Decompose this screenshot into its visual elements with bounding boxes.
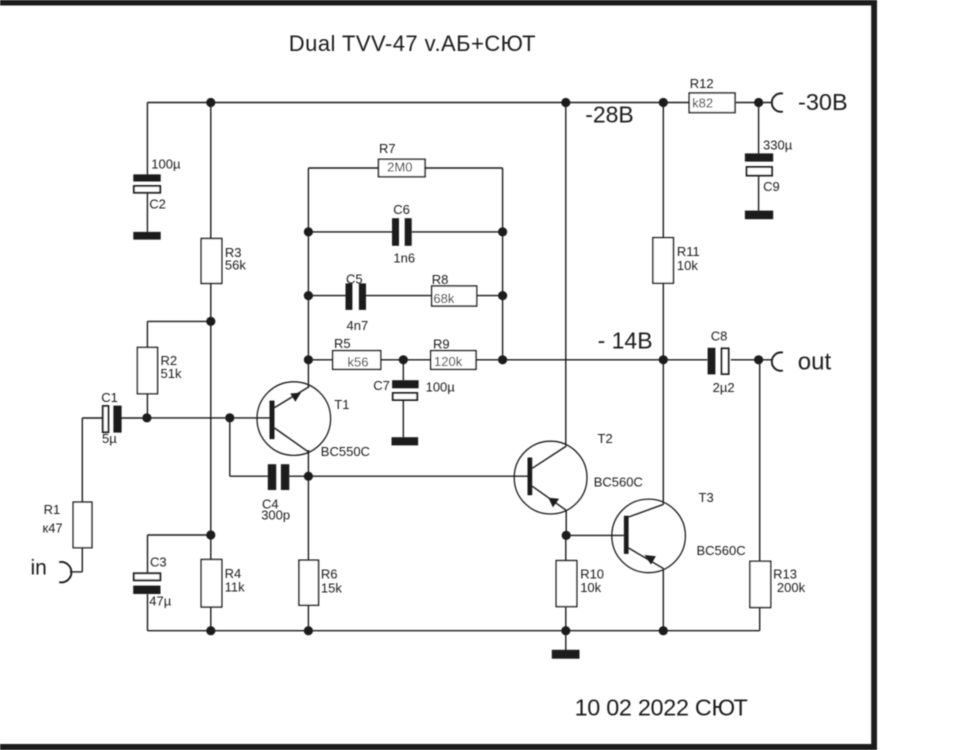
wire R6 to bottom rail [307,605,309,631]
capacitor C6 plate1 [392,218,399,246]
svg-text:C6: C6 [393,202,410,217]
wire T1 node to R6 [307,476,309,561]
svg-text:300p: 300p [261,508,290,523]
node out row/T3 emitter [659,355,668,364]
transistor T1 circle [257,382,331,456]
resistor R7 box [379,159,426,176]
wire T3 collector down [662,569,664,631]
resistor R1 box [73,502,92,548]
node R5/C7 junction [399,355,408,364]
wire fb top left [308,167,378,169]
wire R2 bottom stub [146,394,148,418]
svg-text:k56: k56 [348,354,369,369]
page right border bar [871,0,877,750]
wire T2 collector down [565,511,567,536]
svg-text:2M0: 2M0 [387,160,412,175]
svg-text:R1: R1 [44,502,61,517]
transistor T2 base bar [528,458,533,496]
wire out row [503,359,708,361]
svg-text:11k: 11k [225,579,245,594]
capacitor C8 plate+ [708,348,716,375]
wire C1 down to R1 [81,418,83,502]
node fb/C6 row left [304,227,313,236]
node R3/R2 junction [206,317,215,326]
svg-text:R9: R9 [433,336,450,351]
wire fb top right [425,167,503,169]
node base/R2/C1 junction [142,413,151,422]
wire T1 collector to T2 base [308,475,527,477]
svg-text:-30В: -30В [798,89,848,115]
svg-text:k82: k82 [692,96,713,111]
wire R13 to bottom rail [759,608,761,631]
capacitor C3 plate- [134,573,161,580]
connector out arc [772,352,783,370]
page bottom border bar [0,744,877,750]
node fb/C5 row left [304,291,313,300]
wire T3 emitter up [662,360,664,504]
node rail/C9 [754,98,763,107]
terminal bar C2 [133,232,160,240]
svg-text:56k: 56k [225,258,246,273]
transistor T2 circle [514,441,587,514]
capacitor C8 plate- [722,348,729,374]
wire C6 right [412,231,503,233]
svg-text:330µ: 330µ [763,138,793,153]
wire C2 bottom [146,193,148,232]
wire out to R13 [759,360,761,562]
svg-text:- 14В: - 14В [598,328,653,354]
svg-text:5µ: 5µ [102,431,117,446]
svg-text:BC550C: BC550C [321,444,370,459]
wire top rail [147,102,689,104]
svg-text:68k: 68k [433,291,454,306]
svg-text:C9: C9 [763,179,780,194]
wire in stub [70,571,82,573]
node fb/C5 row right [498,291,507,300]
capacitor C2 plate+ [133,174,160,181]
transistor T3 collector line [629,548,664,569]
svg-text:R8: R8 [432,272,449,287]
transistor T3 collector arrow [644,555,656,565]
node bottom rail/T3 [659,626,668,635]
wire R10 top stub [565,535,567,561]
svg-text:C1: C1 [101,390,118,405]
svg-text:51k: 51k [161,366,182,381]
node rail/R3 [206,98,215,107]
wire C1 left [82,417,103,419]
resistor R2 box [137,347,157,393]
resistor R10 box [556,561,577,607]
transistor T1 emitter arrow [290,393,301,402]
node divider/C3 junction [206,530,215,539]
wire R8 right [477,295,503,297]
node base/C4 junction [225,413,234,422]
resistor R8 box [432,286,477,306]
wire R1 to in [81,548,83,572]
wire feedback column upper [307,168,309,360]
resistor R4 box [201,560,222,608]
capacitor C1 plate+ [113,406,121,433]
svg-text:10k: 10k [677,258,698,273]
wire ground stub [565,631,567,651]
wire T2 to T3 base [566,534,624,536]
resistor R6 box [299,560,319,605]
wire R11 bottom [662,283,664,360]
svg-text:1n6: 1n6 [393,250,415,265]
wire C4 right stub [289,475,308,477]
wire R10 to bottom rail [565,607,567,630]
svg-text:200k: 200k [777,580,806,595]
wire C5 left [308,295,345,297]
svg-text:out: out [798,349,832,376]
wire C2 top [146,103,148,175]
svg-text:R6: R6 [321,567,338,582]
node out/R13 [754,355,763,364]
wire R3 to R4 [210,283,212,559]
capacitor C6 plate2 [405,218,412,246]
transistor T3 emitter line [629,504,664,517]
node bottom rail/R4 [206,626,215,635]
capacitor C1 plate- [103,406,109,432]
node T2 collector/R10/T3 base [562,531,571,540]
capacitor C7 plate- [393,393,417,400]
svg-text:C7: C7 [373,378,390,393]
svg-text:R12: R12 [690,76,714,91]
capacitor C7 plate+ [392,380,419,388]
resistor R13 box [750,561,771,607]
svg-text:T2: T2 [598,431,613,446]
wire T1 collector down [307,450,309,476]
wire C4 branch down [229,418,231,476]
node bottom rail/ground [561,626,570,635]
node bottom rail/R6 [304,626,313,635]
wire R9 right [476,359,503,361]
wire C3 to bottom rail [147,594,149,631]
wire T1 emitter to R5 row [307,360,309,387]
capacitor C9 plate+ [745,153,773,161]
wire C6 left [308,231,392,233]
node rail/R11 [659,98,668,107]
wire R5 to R9 [381,359,431,361]
svg-text:15k: 15k [321,580,342,595]
svg-text:10k: 10k [580,580,601,595]
resistor R3 box [201,239,222,284]
capacitor C4 plate2 [281,464,289,490]
svg-text:BC560C: BC560C [697,543,746,558]
svg-text:R5: R5 [334,336,351,351]
svg-text:C5: C5 [346,272,363,287]
connector -30В arc [772,93,783,111]
capacitor C2 plate- [134,186,160,193]
transistor T1 collector line [275,428,309,452]
transistor T2 collector line [532,486,566,510]
wire C9 top [758,103,760,154]
svg-text:Dual TVV-47 v.АБ+СЮТ: Dual TVV-47 v.АБ+СЮТ [289,31,536,56]
svg-text:T1: T1 [334,397,349,412]
resistor R5 box [333,351,381,370]
node fb/R9 row right [498,355,507,364]
svg-text:120k: 120k [434,354,463,369]
svg-text:4n7: 4n7 [347,318,369,333]
capacitor C5 plate1 [346,283,353,310]
svg-text:C2: C2 [149,197,166,212]
wire bottom rail [148,630,760,632]
svg-text:C3: C3 [150,555,167,570]
capacitor C3 plate+ [133,586,160,594]
svg-text:100µ: 100µ [151,156,181,171]
wire C8 to out [731,359,773,361]
svg-text:-28В: -28В [585,102,634,128]
capacitor C4 plate1 [268,464,276,490]
connector in arc [59,562,71,582]
wire C3 top stub [147,535,149,572]
svg-text:2µ2: 2µ2 [713,380,735,395]
wire C7 bottom [402,400,404,437]
wire fb right column [502,168,504,360]
svg-text:47µ: 47µ [149,593,171,608]
transistor T3 base bar [624,516,629,554]
terminal bar C7 [392,437,419,445]
wire rail to -30B connector [736,102,773,104]
transistor T3 circle [612,499,686,573]
capacitor C9 plate- [747,167,772,176]
ground bar [552,650,580,659]
wire R2 top stub [146,321,148,347]
svg-text:10 02 2022 СЮТ: 10 02 2022 СЮТ [575,695,748,721]
wire C1 right [121,417,147,419]
node fb/R5 row left [304,355,313,364]
node fb/C6 row right [498,227,507,236]
svg-text:C8: C8 [711,329,728,344]
svg-text:100µ: 100µ [426,380,456,395]
wire base node to T1 [147,417,270,419]
wire C7 top [402,360,404,380]
transistor T2 emitter line [532,446,566,468]
transistor T1 base bar [270,401,275,440]
transistor T1 emitter line [275,387,310,408]
wire R11 top [662,103,664,238]
wire R2 horizontal [147,320,210,322]
svg-text:R7: R7 [379,141,396,156]
svg-text:T3: T3 [699,490,714,505]
wire C9 bottom [758,176,760,210]
wire rail to T2 emitter [565,103,567,446]
wire R4 to bottom rail [210,607,212,631]
wire rail to R3 [210,103,212,239]
capacitor C5 plate2 [359,283,366,310]
terminal bar C9 [745,211,773,220]
svg-text:к47: к47 [43,520,63,535]
svg-text:BC560C: BC560C [594,474,643,489]
wire C4 left stub [230,475,268,477]
wire R5 left stub [308,359,332,361]
node T1 collector/C4 [304,472,313,481]
resistor R9 box [431,351,476,370]
svg-text:in: in [31,557,47,580]
resistor R12 box [689,93,735,113]
page top border bar [0,0,877,6]
transistor T2 collector arrow [548,498,559,508]
resistor R11 box [653,238,674,284]
wire C5 to R8 [366,295,432,297]
node rail/T2 emitter [561,98,570,107]
wire C3 horizontal [148,534,211,536]
